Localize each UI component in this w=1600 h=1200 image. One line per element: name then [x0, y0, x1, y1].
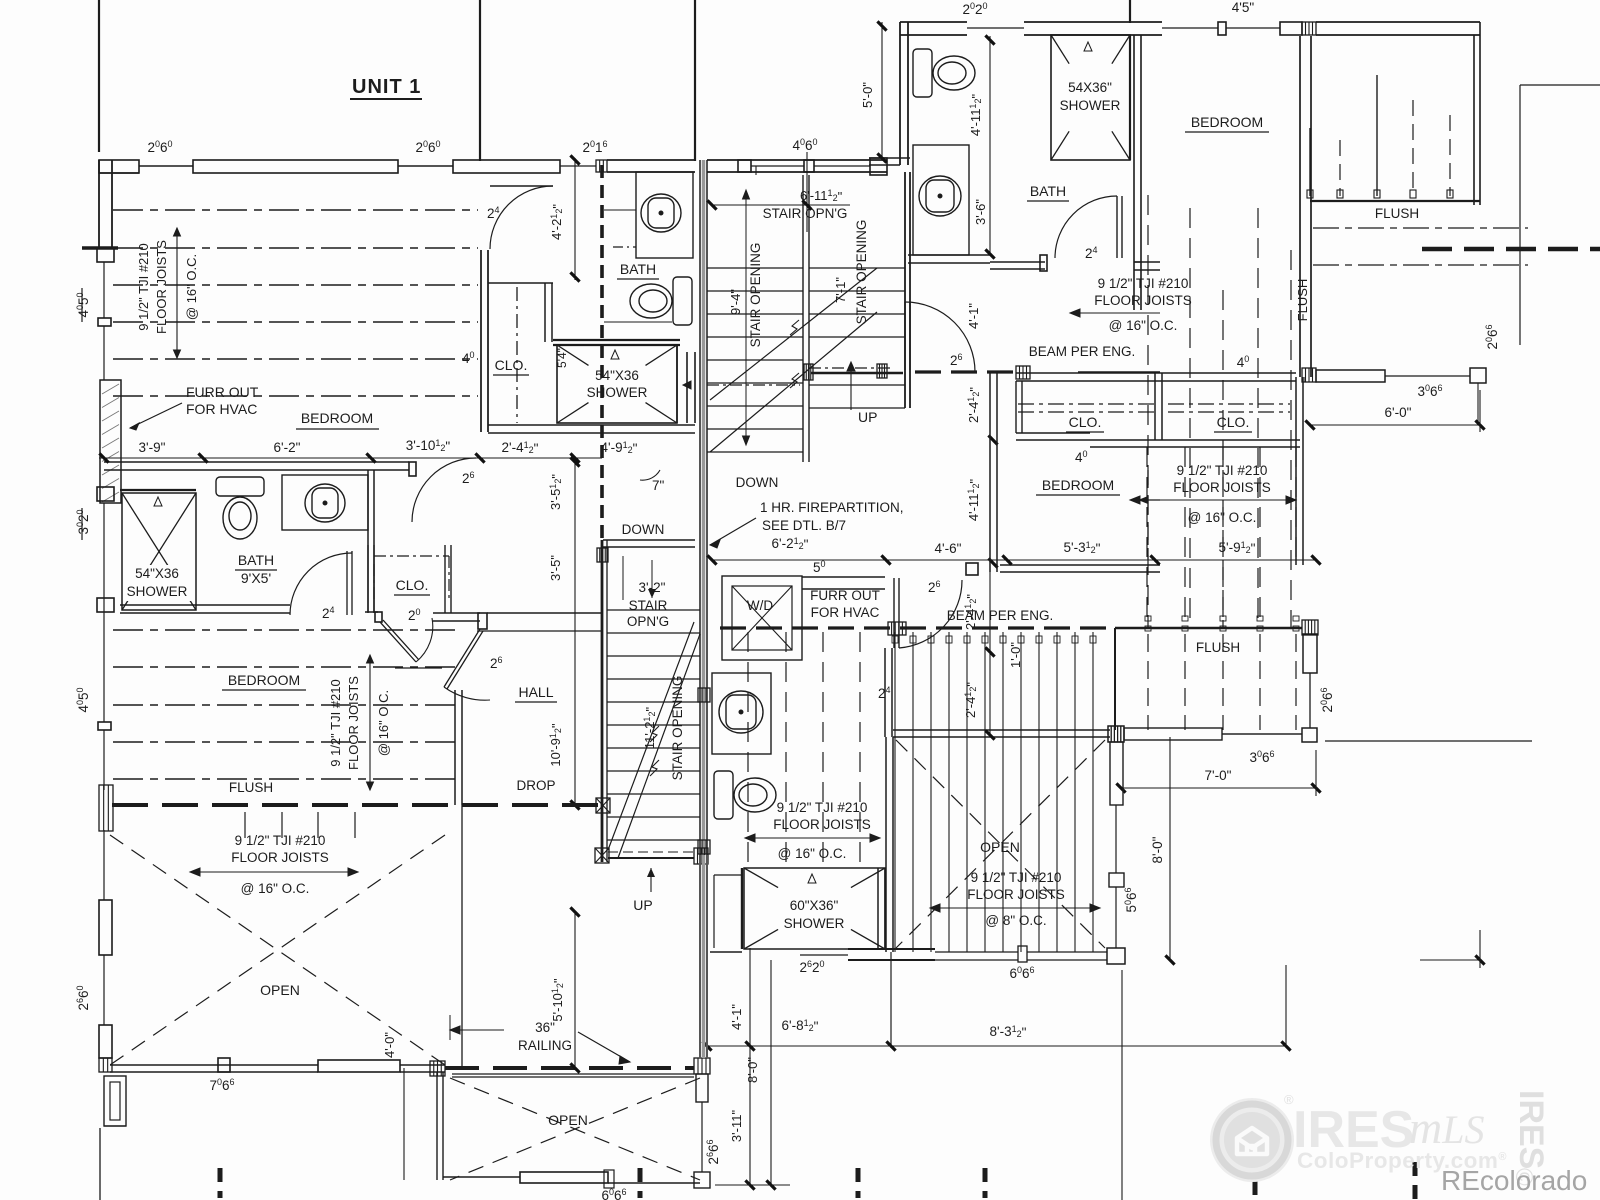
svg-text:60"X36": 60"X36" [790, 898, 839, 913]
open right walls [893, 729, 1110, 731]
stair center rail [802, 175, 804, 462]
shower3 60x36 [741, 868, 743, 949]
bath2 east wall [884, 648, 886, 737]
flush right post column [1303, 634, 1317, 673]
deck right column lines [1304, 377, 1306, 382]
central stair treads [607, 609, 700, 611]
svg-text:FURR OUT: FURR OUT [810, 588, 880, 603]
svg-text:mLS: mLS [1409, 1102, 1484, 1153]
bath2t toilet [913, 49, 975, 97]
svg-text:FOR HVAC: FOR HVAC [811, 605, 880, 620]
dim line at y560 right bldg [712, 559, 1316, 561]
bath2t west wall [899, 22, 901, 165]
bath2t south wall piece [908, 254, 990, 256]
property line left top [98, 0, 100, 152]
bath2 south wall + window [710, 951, 742, 953]
flush mid joists [1147, 634, 1149, 730]
svg-text:OPEN: OPEN [980, 839, 1020, 855]
open right joist verticals [894, 632, 896, 952]
left flight landing dash [707, 384, 800, 386]
svg-text:HALL: HALL [518, 684, 553, 700]
svg-text:FLUSH: FLUSH [1196, 640, 1240, 655]
svg-text:BATH: BATH [620, 261, 656, 277]
svg-text:7'-0": 7'-0" [1205, 768, 1232, 783]
right flight lower treads [809, 384, 905, 386]
svg-text:9 1/2" TJI #210: 9 1/2" TJI #210 [971, 870, 1062, 885]
porch south wall [110, 1064, 318, 1066]
svg-text:3'-6": 3'-6" [973, 199, 988, 225]
svg-text:BEDROOM: BEDROOM [1042, 477, 1114, 493]
svg-text:FLUSH: FLUSH [229, 780, 273, 795]
svg-text:FLOOR JOISTS: FLOOR JOISTS [967, 887, 1065, 902]
svg-text:CLO.: CLO. [396, 577, 429, 593]
svg-text:6'-2": 6'-2" [274, 440, 301, 455]
svg-text:2'-412": 2'-412" [963, 682, 979, 718]
open left (porch) walls [103, 830, 105, 900]
stair treads right flight [809, 267, 905, 269]
svg-text:1 HR. FIREPARTITION,: 1 HR. FIREPARTITION, [760, 500, 904, 515]
stair treads left flight [707, 267, 803, 269]
svg-text:54"X36: 54"X36 [135, 566, 179, 581]
svg-text:54X36": 54X36" [1068, 80, 1112, 95]
svg-text:FLOOR JOISTS: FLOOR JOISTS [154, 240, 169, 334]
rail right of post [1325, 740, 1532, 742]
bedroom1 north wall with windows [99, 160, 139, 173]
svg-text:FLUSH: FLUSH [1375, 206, 1419, 221]
clo3 north wall [1160, 372, 1296, 374]
bath2t dims [881, 22, 883, 158]
bedroom1 joist dash-dot lines [113, 209, 478, 211]
svg-text:5'-912": 5'-912" [1219, 540, 1256, 556]
svg-text:STAIR: STAIR [629, 598, 668, 613]
svg-text:UNIT 1: UNIT 1 [352, 76, 421, 98]
bedroom2 south wall [1000, 564, 1160, 566]
svg-text:2'-412": 2'-412" [966, 387, 982, 423]
svg-text:FLOOR JOISTS: FLOOR JOISTS [346, 676, 361, 770]
right bldg: closet row north wall [1016, 372, 1160, 374]
svg-text:7'-1": 7'-1" [833, 277, 848, 303]
svg-text:FURR OUT: FURR OUT [186, 384, 259, 400]
stair landing dash [809, 367, 893, 369]
door from stair hall to bedroom2 [905, 302, 975, 372]
svg-text:4'-6": 4'-6" [935, 541, 962, 556]
property corner top right [1519, 85, 1521, 345]
lower porch dashed X [450, 1078, 700, 1180]
heavy dashed property marks [1422, 247, 1600, 252]
shower2t right wall [1133, 35, 1135, 310]
beam per eng dashed line [720, 626, 1115, 629]
shower2t 54x36 [1024, 21, 1162, 23]
svg-text:@ 16" O.C.: @ 16" O.C. [1109, 318, 1178, 333]
dim 6-0 extension right [1121, 970, 1123, 1200]
north wall stair section [596, 160, 607, 172]
6-0 dim [1310, 424, 1480, 426]
bottom property verticals [99, 1128, 101, 1200]
clo2 (left) [1018, 403, 1155, 405]
svg-text:SHOWER: SHOWER [784, 916, 845, 931]
svg-text:BEDROOM: BEDROOM [228, 672, 300, 688]
deck north wall [1316, 21, 1480, 23]
svg-text:CLO.: CLO. [495, 357, 528, 373]
svg-text:OPN'G: OPN'G [627, 614, 669, 629]
bath1t west dashed partition [600, 165, 604, 540]
svg-text:3'-9": 3'-9" [139, 440, 166, 455]
bedroom1 west wall [98, 160, 100, 248]
west wall bath1 [103, 503, 105, 612]
stair right wall [904, 172, 906, 408]
svg-text:3'-512": 3'-512" [548, 474, 564, 510]
bath1 south wall [120, 604, 290, 606]
beam dashed at y372 [915, 370, 1016, 373]
svg-text:2'-412": 2'-412" [502, 440, 539, 456]
deck lower rail [1302, 368, 1316, 382]
furr out panel (hatched) [100, 380, 121, 503]
svg-text:5'-0": 5'-0" [860, 82, 875, 108]
svg-text:FLOOR JOISTS: FLOOR JOISTS [1173, 480, 1271, 495]
deck joists vertical [1309, 128, 1311, 196]
svg-text:FOR HVAC: FOR HVAC [186, 401, 257, 417]
bedroom1 door lower right [409, 462, 416, 476]
svg-text:4'-1": 4'-1" [966, 303, 981, 329]
svg-text:BEDROOM: BEDROOM [1191, 114, 1263, 130]
open right posts column [1108, 726, 1124, 742]
svg-text:REcolorado: REcolorado [1441, 1165, 1587, 1196]
bath2 vanity + sink [712, 673, 771, 754]
hall closet [444, 545, 446, 613]
bedroom2t north wall/window [1162, 27, 1218, 29]
svg-text:3'-11": 3'-11" [729, 1110, 744, 1143]
svg-text:4'5": 4'5" [1232, 0, 1255, 15]
svg-text:OPEN: OPEN [260, 982, 300, 998]
dim row y458 left [99, 457, 602, 459]
bedroom3 east wall to porch [454, 690, 456, 805]
svg-text:BATH: BATH [1030, 183, 1066, 199]
watermark IRES logo [1210, 1090, 1587, 1196]
deck east wall [1473, 35, 1475, 205]
svg-text:9 1/2" TJI #210: 9 1/2" TJI #210 [1098, 276, 1189, 291]
svg-text:STAIR OPENING: STAIR OPENING [670, 676, 685, 781]
bath1 shower 54x36 [120, 489, 196, 491]
up arrow right flight [850, 366, 852, 410]
svg-text:STAIR OPENING: STAIR OPENING [748, 243, 763, 348]
svg-text:8'-312": 8'-312" [990, 1024, 1027, 1040]
svg-text:IRES: IRES [1512, 1090, 1550, 1169]
svg-text:7": 7" [652, 478, 665, 493]
bedroom2 arrow to wall [1147, 470, 1149, 560]
lower porch south wall [443, 1176, 520, 1178]
bath2 joist dash verticals [747, 632, 749, 865]
svg-text:9 1/2" TJI #210: 9 1/2" TJI #210 [235, 833, 326, 848]
svg-text:@ 8" O.C.: @ 8" O.C. [985, 913, 1046, 928]
svg-text:8'-0": 8'-0" [1150, 836, 1165, 863]
svg-text:CLO.: CLO. [1069, 414, 1102, 430]
svg-text:UP: UP [858, 409, 877, 425]
south wall of clo/shower row [488, 424, 695, 426]
svg-text:@ 16" O.C.: @ 16" O.C. [184, 254, 199, 320]
svg-text:SHOWER: SHOWER [1060, 98, 1121, 113]
bath1t toilet [630, 277, 692, 325]
bath2t north wall + window [900, 21, 967, 23]
central stair diagonals [608, 622, 694, 850]
svg-text:6'-212": 6'-212" [772, 536, 809, 552]
svg-text:BEAM PER ENG.: BEAM PER ENG. [1029, 344, 1136, 359]
svg-text:STAIR OPENING: STAIR OPENING [854, 220, 869, 325]
svg-text:6'-0": 6'-0" [1385, 405, 1412, 420]
svg-text:4'-1": 4'-1" [729, 1004, 744, 1030]
dim 8-3.5 [890, 952, 892, 1048]
4-2.5 dim bedroom1 [574, 158, 576, 280]
svg-text:FLOOR JOISTS: FLOOR JOISTS [231, 850, 329, 865]
porch right post column [694, 1058, 710, 1074]
svg-text:@ 16" O.C.: @ 16" O.C. [778, 846, 847, 861]
bath1 vanity [282, 475, 368, 530]
svg-text:DROP: DROP [516, 778, 555, 793]
shower1t 54x36 [553, 339, 680, 341]
svg-text:W/D: W/D [747, 598, 773, 613]
open left dashed X [110, 835, 445, 1065]
svg-text:5'4": 5'4" [555, 348, 569, 368]
bedroom3 west wall [103, 612, 105, 722]
lower porch left wall [436, 1072, 438, 1180]
clo2/clo3 south wall [1016, 432, 1090, 434]
bottom boundary dashes [218, 1168, 223, 1198]
bath2t door [1116, 196, 1118, 258]
svg-text:3'-5": 3'-5" [548, 555, 563, 581]
bedroom2 joist dashed verticals lower [1146, 447, 1148, 628]
svg-text:9 1/2" TJI #210: 9 1/2" TJI #210 [1177, 463, 1268, 478]
svg-text:9'X5': 9'X5' [241, 570, 271, 586]
deck dash-dot lines [1313, 227, 1528, 229]
central stair walls [601, 540, 604, 862]
svg-text:UP: UP [633, 897, 652, 913]
svg-text:CLO.: CLO. [1217, 414, 1250, 430]
central stair bottom [595, 848, 609, 863]
svg-text:FLOOR JOISTS: FLOOR JOISTS [773, 817, 871, 832]
svg-text:DOWN: DOWN [736, 475, 779, 490]
svg-text:FLUSH: FLUSH [1295, 279, 1310, 322]
rail left of hatch [1108, 726, 1124, 742]
bath2 toilet [714, 771, 776, 819]
svg-text:4'-0": 4'-0" [382, 1032, 397, 1058]
svg-text:6'-812": 6'-812" [782, 1018, 819, 1034]
stair upper right: north wall [560, 165, 596, 167]
svg-text:9'-4": 9'-4" [728, 289, 743, 315]
svg-text:BATH: BATH [238, 552, 274, 568]
svg-text:54"X36: 54"X36 [595, 368, 639, 383]
bedroom1 door (2-6) top [490, 185, 553, 187]
bedroom2 door lower [893, 578, 895, 648]
party line A top [479, 0, 481, 161]
bedroom3 joist dash-dot lines [113, 629, 455, 631]
svg-text:1'-0": 1'-0" [1008, 642, 1023, 668]
svg-text:8'-0": 8'-0" [745, 1057, 760, 1083]
shower1t right walls [676, 345, 678, 423]
upper stair dim marks [806, 152, 808, 232]
open right bottom rail [935, 951, 1018, 953]
flush wall between bedroom and deck [1299, 36, 1301, 377]
porch left post structure [104, 1076, 126, 1126]
bedroom2 mid west wall [989, 373, 991, 572]
svg-text:4'-912": 4'-912" [601, 440, 638, 456]
bath1 door [346, 551, 348, 615]
property line right top [1129, 0, 1131, 23]
shower3 tri mark [808, 874, 816, 883]
stair diagonals with breaks [710, 268, 877, 400]
party line B top [694, 0, 696, 161]
svg-text:5'-312": 5'-312" [1064, 540, 1101, 556]
svg-text:STAIR OPN'G: STAIR OPN'G [763, 206, 848, 221]
svg-text:@ 16" O.C.: @ 16" O.C. [1188, 510, 1257, 525]
svg-text:SHOWER: SHOWER [587, 385, 648, 400]
bath1 toilet [216, 477, 264, 539]
8-0 dim right [1169, 737, 1171, 960]
svg-text:BEDROOM: BEDROOM [301, 410, 373, 426]
bath2t vanity [913, 145, 969, 255]
flush mid left edge [1114, 628, 1116, 730]
wd box [722, 576, 802, 660]
svg-text:9 1/2" TJI #210: 9 1/2" TJI #210 [777, 800, 868, 815]
bath1t vanity [636, 172, 693, 258]
svg-text:SHOWER: SHOWER [127, 584, 188, 599]
svg-text:RAILING: RAILING [518, 1038, 572, 1053]
bath1 wall right [367, 470, 369, 612]
joists below flush [244, 812, 246, 838]
svg-text:FLOOR JOISTS: FLOOR JOISTS [1094, 293, 1192, 308]
bedroom1 south wall [104, 461, 409, 463]
svg-text:OPEN: OPEN [548, 1112, 588, 1128]
flush mid beam [1115, 627, 1302, 630]
svg-text:2'-412": 2'-412" [963, 594, 979, 630]
rail row under flush [1222, 733, 1302, 735]
open right dashed X [896, 740, 1105, 948]
closet bottom walls + doors [365, 611, 378, 613]
bedroom1 joist dim arrow [176, 228, 178, 358]
bedroom2 mid east wall [1295, 377, 1297, 565]
wall between clo2/clo3 [1154, 373, 1156, 440]
railing heavy dashed [430, 1061, 445, 1076]
svg-text:9 1/2" TJI #210: 9 1/2" TJI #210 [136, 243, 151, 331]
svg-text:SEE DTL. B/7: SEE DTL. B/7 [762, 518, 846, 533]
bedroom2t joist dashed verticals [1147, 195, 1149, 628]
svg-text:@ 16" O.C.: @ 16" O.C. [241, 881, 310, 896]
clo1 closet [480, 250, 482, 432]
svg-text:DOWN: DOWN [622, 522, 665, 537]
party wall center (gray) [699, 160, 701, 855]
deck beam flush [1310, 200, 1480, 202]
svg-text:4'-212": 4'-212" [549, 204, 565, 240]
svg-text:@ 16" O.C.: @ 16" O.C. [376, 690, 391, 756]
svg-text:9 1/2" TJI #210: 9 1/2" TJI #210 [328, 679, 343, 767]
party wall lower segment [699, 855, 701, 1058]
